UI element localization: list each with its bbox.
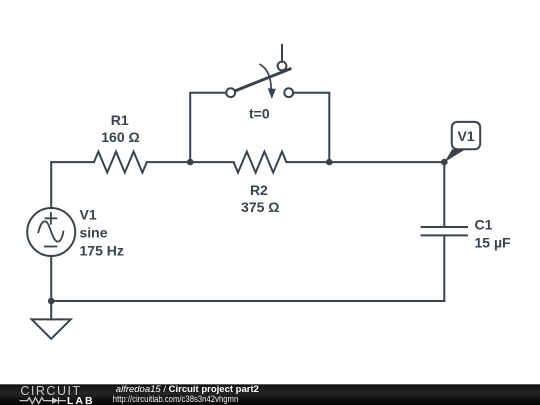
wire R1 to R2 [147,161,234,163]
ground [32,301,71,339]
switch right terminal [284,88,293,97]
node V1 label pointer [444,149,465,162]
wire switch left branch [190,93,226,162]
wire V1 bottom to ground junction [50,256,52,301]
svg-text:V1: V1 [457,128,474,144]
junction R2/switch-right [326,159,333,166]
wire top rail left (V1 corner to R1) [51,162,94,208]
resistor R2 [234,152,287,173]
node V1 label box [452,122,480,149]
svg-text:175 Hz: 175 Hz [80,243,124,259]
switch left terminal [226,88,235,97]
footer bar [0,384,540,405]
svg-text:t=0: t=0 [249,105,270,121]
svg-text:http://circuitlab.com/c38s3n42: http://circuitlab.com/c38s3n42vhgmn [113,394,239,404]
wire right branch down to capacitor [443,162,445,226]
switch top stub [281,45,283,62]
svg-text:160 Ω: 160 Ω [101,129,139,145]
svg-text:R1: R1 [111,112,129,128]
junction node V1 top right [441,159,448,166]
svg-text:V1: V1 [80,207,97,223]
svg-text:15 µF: 15 µF [475,234,512,250]
wire bottom rail [51,300,444,302]
wire R2 to right corner [286,161,444,163]
junction R1/switch-left [187,159,194,166]
junction ground [48,298,55,305]
switch SW1 arm [235,69,290,91]
capacitor C1 [422,227,467,301]
voltage source V1 [27,208,75,256]
svg-text:C1: C1 [475,216,493,232]
switch top terminal [278,62,287,71]
svg-text:LAB: LAB [67,395,95,405]
svg-text:375 Ω: 375 Ω [241,199,279,215]
CircuitLab logo schematic line with resistor and diode [20,397,66,404]
svg-text:R2: R2 [250,182,268,198]
wire switch right branch [293,93,329,162]
svg-text:sine: sine [80,225,108,241]
resistor R1 [94,152,147,173]
switch actuation arrow [260,65,276,100]
